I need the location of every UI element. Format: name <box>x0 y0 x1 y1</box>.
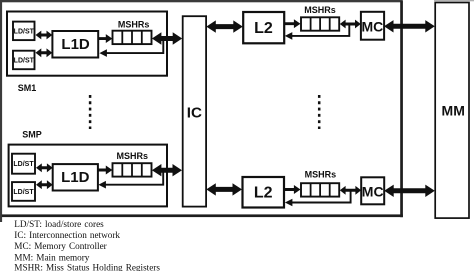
svg-text:MC: MC <box>362 19 384 35</box>
wire: double arrow LD/ST4 to L1D <box>36 180 53 189</box>
svg-text:L1D: L1D <box>61 169 90 186</box>
MSHR cell divider 1 (L2 top) <box>310 17 312 30</box>
L2 cache box (bottom) <box>243 177 285 208</box>
wire: thick double arrow MSHR to IC (SM1) <box>152 32 182 44</box>
wire: double arrow LD/ST1 to L1D <box>36 31 53 40</box>
outer GPU box: cropped left border (dark strip at image edge) <box>0 0 2 222</box>
svg-text:MC: MC <box>362 183 384 199</box>
MSHR cell divider 2 (L2 bottom) <box>319 183 321 196</box>
MSHR cell divider 3 (SMP) <box>141 163 143 176</box>
LD/ST core box 2 (SM1 bottom) <box>13 51 35 69</box>
SMP box <box>9 145 167 207</box>
wire: return path MSHR-MC to L2 (top) <box>288 24 349 36</box>
L1D cache box (SMP) <box>53 164 98 190</box>
svg-text:MM: Main memory: MM: Main memory <box>14 252 90 262</box>
SM1 box <box>7 12 167 76</box>
LD/ST core box 1 (SM1 top) <box>13 22 35 40</box>
MSHR cell divider 1 (L2 bottom) <box>310 183 312 196</box>
L1D cache box (SM1) <box>52 31 98 58</box>
L2 cache box (top) <box>243 12 284 43</box>
wire: thick double arrow MC to MM (top) <box>384 20 435 32</box>
svg-text:MSHRs: MSHRs <box>117 151 149 161</box>
wire: double arrow MSHR to MC (bottom) <box>340 186 361 195</box>
svg-text:MC: Memory Controller: MC: Memory Controller <box>14 241 106 251</box>
gray strip above MM box <box>434 0 474 1</box>
dotted ellipsis between SM1 and SMP <box>89 95 92 129</box>
svg-text:SM1: SM1 <box>18 83 37 93</box>
interconnection network IC box <box>183 16 206 206</box>
outer GPU box: right border <box>400 1 403 217</box>
outer GPU box: cropped top border (dark strip at image edge) <box>0 0 403 2</box>
MSHR cell divider 3 (L2 bottom) <box>329 183 331 196</box>
svg-text:LD/ST: LD/ST <box>13 161 34 168</box>
wire: return path MSHR-MC to L2 (bottom) <box>288 190 351 202</box>
svg-text:MSHRs: MSHRs <box>118 19 150 29</box>
MSHR cell divider 3 (SM1) <box>141 31 143 44</box>
MSHR register box (SMP) <box>113 163 152 176</box>
MSHR cell divider 3 (L2 top) <box>329 17 331 30</box>
wire: arrow L2 to MSHR (bottom) <box>285 185 301 194</box>
memory controller MC box (bottom) <box>361 177 384 204</box>
wire: arrow L1D to MSHR (SM1) <box>99 34 113 43</box>
svg-text:MSHR: Miss Status Holding Regi: MSHR: Miss Status Holding Registers <box>14 262 160 271</box>
wire: return path MSHR side to L1D (SMP) <box>102 170 163 185</box>
MSHR cell divider 1 (SMP) <box>121 163 123 176</box>
wire: double arrow LD/ST2 to L1D <box>36 48 53 57</box>
svg-text:IC: Interconnection network: IC: Interconnection network <box>14 230 120 240</box>
wire: double arrow MSHR to MC (top) <box>340 20 361 29</box>
svg-text:LD/ST: load/store cores: LD/ST: load/store cores <box>14 219 104 229</box>
wire: double arrow LD/ST3 to L1D <box>36 163 53 172</box>
wire: thick double arrow IC to L2 (top) <box>206 20 243 32</box>
wire: thick double arrow MSHR to IC (SMP) <box>152 164 182 176</box>
main memory MM box <box>435 3 469 219</box>
svg-text:IC: IC <box>187 104 202 121</box>
svg-text:MSHRs: MSHRs <box>304 5 336 15</box>
svg-text:L2: L2 <box>254 185 273 202</box>
memory controller MC box (top) <box>361 12 384 40</box>
svg-text:LD/ST: LD/ST <box>14 58 35 65</box>
MSHR register box (L2 bottom) <box>301 183 339 196</box>
LD/ST core box 4 (SMP bottom) <box>12 182 35 201</box>
wire: arrow L2 to MSHR (top) <box>284 19 300 28</box>
svg-text:SMP: SMP <box>22 129 42 139</box>
svg-text:LD/ST: LD/ST <box>14 28 35 35</box>
svg-text:MM: MM <box>442 103 465 119</box>
MSHR cell divider 2 (SMP) <box>131 163 133 176</box>
wire: return path MSHR side to L1D (SM1) <box>103 39 163 54</box>
svg-text:L1D: L1D <box>61 36 90 53</box>
MSHR cell divider 1 (SM1) <box>121 31 123 44</box>
MSHR cell divider 2 (SM1) <box>131 31 133 44</box>
wire: arrow L1D to MSHR (SMP) <box>98 166 112 175</box>
LD/ST core box 3 (SMP top) <box>12 154 35 174</box>
svg-text:LD/ST: LD/ST <box>13 189 34 196</box>
MSHR cell divider 2 (L2 top) <box>319 17 321 30</box>
wire: thick double arrow MC to MM (bottom) <box>384 185 435 197</box>
outer GPU box: bottom border <box>2 214 403 217</box>
wire: thick double arrow IC to L2 (bottom) <box>206 183 242 195</box>
svg-text:L2: L2 <box>254 20 273 37</box>
svg-text:MSHRs: MSHRs <box>305 169 337 179</box>
dotted ellipsis between L2 rows <box>318 95 321 129</box>
MSHR register box (SM1) <box>113 31 152 44</box>
MSHR register box (L2 top) <box>301 17 339 30</box>
